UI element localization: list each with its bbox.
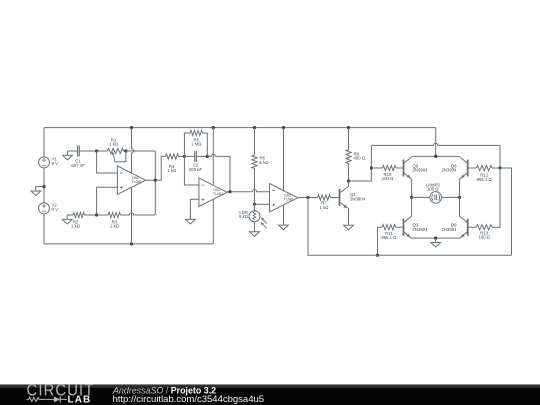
wire V2 bottom to -9V rail [43,214,45,244]
node junction bridge-left column / R10 [370,166,373,169]
svg-text:1 kΩ: 1 kΩ [110,224,120,229]
ground at OA3 V- [279,221,289,230]
lamp LAMP2 100 Ohm [426,182,442,203]
wire R10 to Q6 base [396,167,404,169]
transistor Q3 2N3904 [404,216,429,238]
transistor Q1 2N3904 [340,186,366,208]
potentiometer R1 1 kOhm [107,137,123,162]
wire R1 right to node [124,150,126,152]
wire Q3 collector up to lamp line [411,197,413,216]
wire R4 to node A [179,155,185,157]
resistor R3 1 kOhm [108,212,120,228]
op-amp OA1 TL081 [117,166,145,195]
node junction R2 / R3 / OA1 +in [95,213,98,216]
node junction bridge emitters [434,237,437,240]
svg-text:1 kΩ: 1 kΩ [320,205,330,210]
resistor R13 100 Ohm [476,225,492,240]
wire node to LDR [254,204,256,210]
svg-text:995.1 Ω: 995.1 Ω [477,177,493,182]
wire top +9V rail [44,127,436,129]
node junction top rail / OA3 V+ [282,126,285,129]
wire Q8 emitter down to lamp line [459,179,461,198]
wire bridge top bar [412,155,460,157]
node junction top rail / R6 [253,126,256,129]
node junction lamp right [458,196,461,199]
footer url text [113,394,265,405]
wire Q6 emitter down to lamp line [411,179,413,198]
node junction R11 column / bottom loop [376,254,379,257]
wire OA2 V+ pin [212,128,214,186]
ground at OA2 +in [186,215,196,224]
svg-text:1 kΩ: 1 kΩ [167,168,177,173]
wire ground to R2 [67,214,73,216]
transistor Q9 2N3904 (mirrored) [441,216,467,238]
wire R11 left down to bottom loop [378,227,383,255]
resistor R6 5 kOhm [252,155,269,168]
wire Q1 collector up to R8 [348,164,350,187]
wire R1 wiper loop [114,151,126,162]
wire LDR bottom [254,222,256,232]
svg-text:200 nF: 200 nF [189,167,203,172]
wire node to R7 [308,197,318,199]
node junction OA1 output / feedback column [154,179,157,182]
wire Q9 emitter to center [436,237,460,239]
node junction top rail / OA2 V+ [212,126,215,129]
wire Q9 base to R13 [468,226,477,228]
wire Q3 emitter to center [412,237,436,239]
capacitor C2 200 nF [189,151,203,172]
svg-text:100 Ω: 100 Ω [382,176,394,181]
node junction top rail / R8 [347,126,350,129]
wire R8 top [348,128,350,150]
wire V1 bottom to mid junction [43,168,45,203]
node junction Q1 collector / R8 / bridge feed [347,179,350,182]
wire OA1 output [146,179,156,181]
ground at C1 left [63,151,73,160]
photoresistor LDR 5 kOhm [239,210,267,228]
node junction R6 / LDR / OA3 +in [253,203,256,206]
wire output column down [229,156,231,191]
svg-text:TL081: TL081 [213,192,223,196]
resistor R4 1 kOhm [166,154,179,173]
op-amp OA2 TL081 [199,178,227,207]
wire OA1 output jog to R4 [155,156,165,180]
logo CIRCUIT text [27,382,95,400]
footer title AndressaSO / Projeto 3.2 [112,386,216,396]
svg-text:9 V: 9 V [52,207,59,212]
resistor R11 995.1 Ohm [381,225,397,241]
svg-text:1 kΩ: 1 kΩ [71,224,81,229]
svg-text:2N3904: 2N3904 [441,227,457,232]
ground at V1/V2 midpoint [31,187,41,196]
wire Q9 collector up to lamp line [459,197,461,216]
svg-text:LAB: LAB [68,394,92,405]
wire node to outer column [500,168,512,255]
wire lamp left lead [412,196,430,198]
svg-text:667 nF: 667 nF [71,163,85,168]
wire lamp right lead [442,196,460,198]
capacitor C1 667 nF [71,146,85,168]
svg-text:5 kΩ: 5 kΩ [260,160,270,165]
svg-text:TL081: TL081 [284,197,294,201]
svg-text:995.1 Ω: 995.1 Ω [381,235,397,240]
wire bridge feed top line (hop over +9V drop) [371,143,500,145]
svg-text:400 Ω: 400 Ω [354,156,366,161]
svg-text:9 V: 9 V [52,161,59,166]
ground below LDR [250,227,260,236]
svg-text:2N3904: 2N3904 [441,168,457,173]
wire R3 right to feedback column (hop over OA1 V-) [120,213,155,215]
svg-text:http://circuitlab.com/c3544cbg: http://circuitlab.com/c3544cbgsa4u5 [113,394,265,405]
wire feedback column [154,151,156,215]
svg-text:2N3904: 2N3904 [413,168,429,173]
node junction C1 / R1 / OA1 -in [95,149,98,152]
wire top rail drop to bridge [435,128,437,157]
node junction bridge top / +9V [434,155,437,158]
wire midpoint to ground [36,186,44,188]
node junction lamp left [410,196,413,199]
wire OA2 V- pin [212,199,214,244]
node junction OA2 output / output column [228,190,231,193]
wire OA3 V- pin [283,205,285,221]
wire OA3 V+ pin [283,128,285,191]
wire OA1 -in vertical [97,151,118,173]
wire OA2 +in to ground [190,199,199,219]
node junction V1/V2 midpoint [42,185,45,188]
wire Q3 base to R11 [396,226,404,228]
svg-text:TL081: TL081 [131,180,141,184]
logo resistor-diode glyph row [27,396,68,402]
ground at bridge emitters [431,238,441,247]
node junction R1 right / feedback [124,149,127,152]
node junction OA3 output / R7 / bottom loop [306,196,309,199]
wire R1 node to feedback column [126,150,156,152]
wire ground to C1 [68,150,78,152]
resistor R2 1 kOhm [71,212,84,228]
wire OA3 output bottom loop [308,198,512,256]
resistor R10 100 Ohm [382,165,396,181]
wire node to OA3 +in [255,203,270,205]
wire node to R3 [97,214,109,216]
wire OA2 -in [184,156,199,185]
wire right column down to R12 node [499,145,501,168]
wire R2 to node [85,214,97,216]
wire OA1 +in vertical [97,187,118,215]
wire node A to C2 [184,155,194,157]
wire R5 loop left [184,133,190,156]
wire R12 right to node [492,167,500,169]
svg-text:5 kΩ: 5 kΩ [239,214,249,219]
wire R5 loop right [203,133,208,156]
svg-text:1 kΩ: 1 kΩ [109,142,119,147]
transistor Q8 2N3904 (mirrored) [441,157,467,179]
footer bar [0,384,540,405]
wire R6 bottom to node [254,169,256,205]
wire OA2 output to OA3 -in (hop over R6/LDR column) [227,190,269,192]
svg-text:2N3904: 2N3904 [350,196,366,201]
wire C1 to node [79,150,96,152]
svg-text:100 Ω: 100 Ω [427,187,439,192]
node B junction C2 / R5 / output loop [206,155,209,158]
resistor R5 1 MOhm [190,130,202,146]
voltage source V1 9 V [39,157,59,168]
wire right column to R13 [492,168,500,227]
wire Q8 base to R12 [468,167,477,169]
wire OA3 output [298,197,308,199]
wire R6 top [254,128,256,155]
wire node to R1 [97,150,108,152]
transistor Q6 2N3904 [404,157,429,179]
wire OA1 V+ pin (hops right over R1 line) [132,128,134,173]
wire Q1 collector to bridge-left column [349,145,372,181]
node A junction R4 / C2 / R5 / OA2 -in [183,155,186,158]
svg-text:2N3904: 2N3904 [413,227,429,232]
resistor R8 400 Ohm [346,150,366,164]
node junction bottom rail / OA1 V- [130,242,133,245]
wire R7 to Q1 base [331,197,340,199]
svg-text:100 Ω: 100 Ω [478,235,490,240]
wire OA1 V- pin [131,187,133,244]
wire node to R10 [371,167,382,169]
svg-text:1 MΩ: 1 MΩ [191,142,202,147]
wire bottom -9V rail [44,243,213,245]
wire Q1 emitter to ground [348,209,350,226]
resistor R12 995.1 Ohm [476,165,492,182]
node junction top rail / OA1 V+ [130,126,133,129]
ground at Q1 emitter [344,221,354,230]
resistor R7 1 kOhm [318,195,331,210]
logo LAB text [68,394,92,405]
wire node B to OA2 output column (hop over OA2 V+) [207,154,230,156]
voltage source V2 9 V [39,203,59,214]
wire C2 to node B [196,155,207,157]
node junction R12 / columns [498,166,501,169]
wire left rail V1 top [43,128,45,157]
op-amp OA3 TL081 [270,184,298,213]
ground at R2 left [62,215,72,224]
